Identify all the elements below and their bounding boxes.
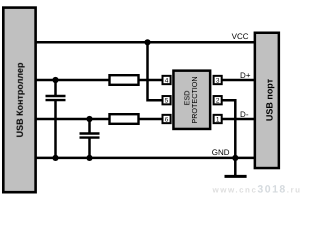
wire pin 1 to USB port D-: [222, 118, 256, 121]
pin 1: [214, 115, 222, 123]
svg-text:4: 4: [165, 77, 169, 84]
junction dot gnd node: [232, 155, 238, 161]
wire capacitor C2 branch lower: [88, 138, 91, 158]
junction dot C1 top: [52, 77, 58, 83]
pin 2: [214, 96, 222, 104]
junction dot C2 gnd: [86, 155, 92, 161]
wire pin 3 to USB port D+: [222, 79, 256, 82]
wire capacitor C1 branch lower: [54, 100, 57, 158]
svg-text:6: 6: [165, 116, 169, 123]
pin 3: [214, 76, 222, 84]
wire controller D+ row to pin 4: [34, 79, 163, 82]
USB port box: [255, 33, 279, 168]
wire GND rail: [34, 157, 255, 160]
pin 4: [163, 76, 171, 84]
svg-text:USB порт: USB порт: [265, 78, 275, 121]
svg-text:1: 1: [216, 116, 220, 123]
wire VCC drop to pin 5: [148, 42, 163, 100]
wire VCC rail: [34, 41, 255, 44]
capacitor C1: [46, 95, 66, 97]
wire controller D- row to pin 6: [34, 118, 163, 121]
USB controller box: [3, 8, 35, 193]
svg-text:www.cnc3018.ru: www.cnc3018.ru: [212, 183, 302, 195]
svg-text:VCC: VCC: [232, 32, 249, 41]
wire pin 2 to ground: [222, 100, 236, 176]
svg-text:USB Контроллер: USB Контроллер: [15, 62, 25, 137]
junction dot C1 gnd: [52, 155, 58, 161]
svg-text:5: 5: [165, 98, 169, 105]
svg-text:GND: GND: [212, 148, 230, 157]
pin 6: [163, 115, 171, 123]
resistor R1: [110, 75, 139, 85]
svg-text:D-: D-: [240, 110, 249, 119]
wire capacitor C2 branch upper: [88, 119, 91, 134]
junction dot C2 top: [86, 116, 92, 122]
capacitor C2: [80, 132, 100, 134]
svg-text:2: 2: [216, 98, 220, 105]
ground: [225, 175, 247, 178]
svg-text:D+: D+: [240, 71, 251, 80]
wire capacitor C1 branch upper: [54, 80, 57, 96]
junction dot VCC to pin5: [144, 39, 150, 45]
ESD protection IC U1 body: [173, 71, 210, 129]
svg-text:3: 3: [216, 77, 220, 84]
resistor R2: [110, 114, 139, 124]
pin 5: [163, 96, 171, 104]
svg-text:PROTECTION: PROTECTION: [190, 76, 199, 123]
